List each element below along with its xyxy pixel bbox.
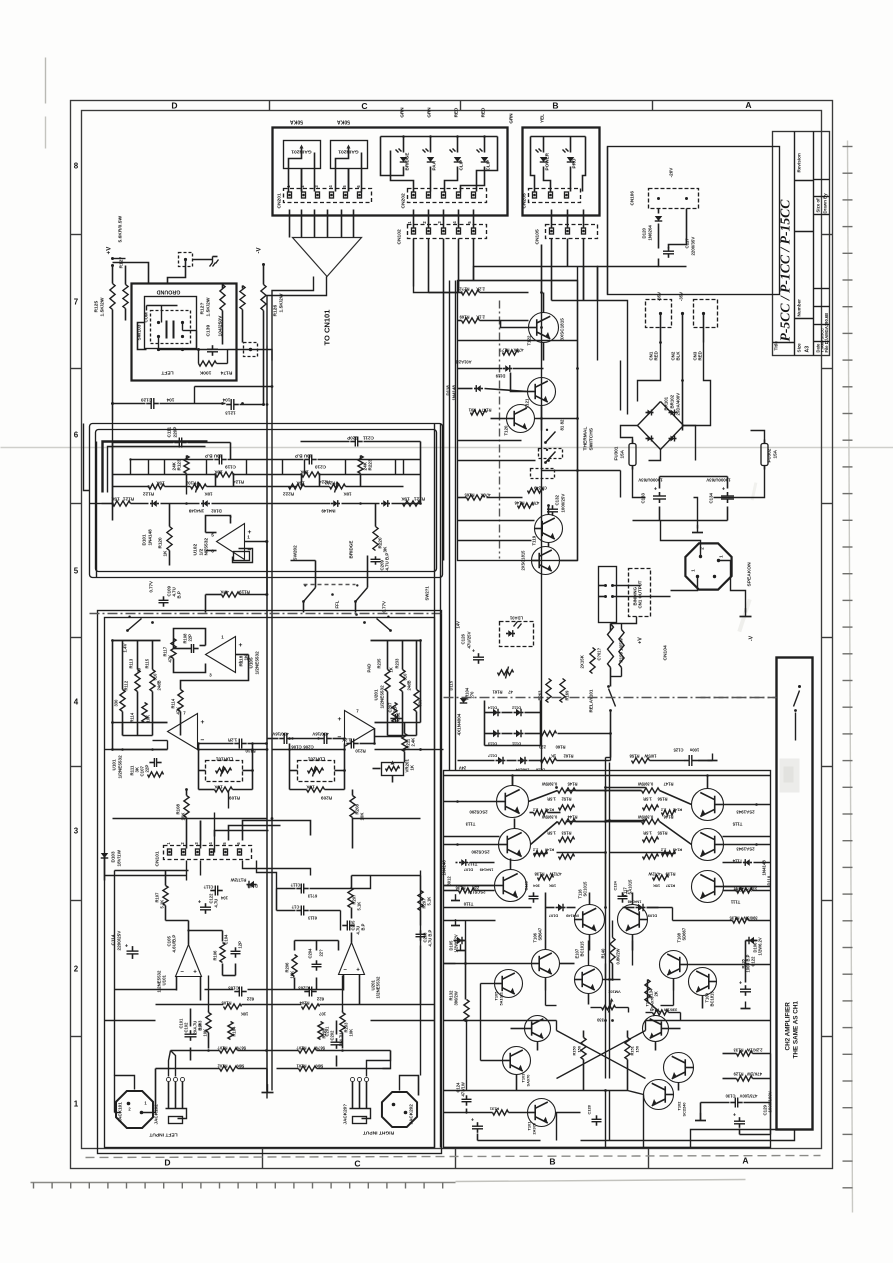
resistor R148 CR249	[528, 488, 544, 493]
svg-text:R174: R174	[220, 370, 232, 376]
svg-text:U102: U102	[193, 544, 199, 556]
svg-text:R159 10/5W: R159 10/5W	[619, 637, 624, 662]
op-amp U101 input stage left	[168, 714, 198, 750]
svg-text:330: 330	[596, 1018, 604, 1023]
svg-text:10K: 10K	[290, 971, 295, 979]
svg-text:10K: 10K	[146, 715, 151, 723]
svg-text:Size of: Size of	[816, 198, 821, 213]
transistor T112 2SC5200	[499, 829, 531, 861]
svg-text:2XSC1815: 2XSC1815	[521, 550, 526, 571]
svg-text:R126: R126	[273, 305, 279, 317]
svg-text:R113: R113	[129, 658, 134, 668]
svg-text:1N4148: 1N4148	[627, 900, 641, 905]
capacitor C210 10U B.P	[308, 455, 310, 465]
svg-text:CH2 AMPLIFIER: CH2 AMPLIFIER	[785, 1002, 792, 1051]
LED PRO indicator	[567, 157, 575, 162]
svg-text:CLIP: CLIP	[459, 160, 464, 171]
wires preamp mid	[186, 790, 188, 796]
svg-text:R112: R112	[124, 680, 129, 690]
svg-text:C102: C102	[184, 1022, 189, 1033]
jack JACK101 octagon	[116, 1091, 153, 1128]
ground big caps	[694, 498, 698, 529]
capacitor C128 bottom middle	[592, 1118, 602, 1120]
svg-text:R162: R162	[563, 754, 574, 759]
transistor T108 SD667	[660, 951, 688, 979]
svg-text:−: −	[180, 969, 184, 976]
svg-text:4.7U B.P: 4.7U B.P	[428, 930, 433, 947]
wire bottom rail output	[444, 1147, 771, 1149]
svg-text:R12?: R12?	[200, 303, 206, 315]
diode D119	[505, 365, 510, 372]
wires under CN101 extra	[257, 861, 277, 889]
svg-text:R135: R135	[729, 916, 740, 921]
svg-text:R169: R169	[565, 690, 570, 701]
right edge ruler ticks	[843, 146, 853, 148]
svg-text:47/2W: 47/2W	[549, 872, 561, 877]
svg-text:C128: C128	[587, 1104, 592, 1114]
svg-text:2X15K: 2X15K	[580, 654, 585, 668]
svg-text:-V: -V	[749, 635, 755, 641]
svg-text:SW202: SW202	[293, 545, 298, 561]
svg-text:2K: 2K	[654, 991, 659, 996]
svg-text:C?01?: C?01?	[597, 647, 602, 660]
svg-text:D115: D115	[449, 680, 454, 690]
resistor R167 2.2K	[462, 290, 480, 295]
transistor T104 SA970	[643, 1016, 669, 1042]
transistor T115 2SA1943	[692, 789, 724, 821]
polarized capacitor bottom left	[472, 1125, 483, 1127]
svg-text:2.2: 2.2	[660, 808, 666, 813]
transistor T102 SC2240 pair	[664, 1053, 694, 1083]
svg-text:150: 150	[635, 1046, 640, 1053]
emitter resistors left bank	[558, 788, 576, 793]
title block divider lines	[794, 132, 796, 356]
svg-text:Title: Title	[774, 341, 779, 351]
svg-text:15A: 15A	[620, 449, 625, 458]
polarized capacitor C122 4.7U	[200, 906, 211, 908]
svg-text:+V: +V	[638, 637, 644, 644]
transistor small left	[495, 970, 523, 998]
svg-text:R133: R133	[733, 1048, 744, 1053]
svg-text:D107: D107	[464, 868, 473, 873]
power section extra wires	[458, 340, 578, 342]
svg-text:1N6204: 1N6204	[648, 225, 653, 241]
svg-text:2200/35V: 2200/35V	[691, 237, 696, 256]
dashed lead into CH2 box	[701, 697, 777, 699]
transistor T121	[528, 378, 556, 406]
svg-text:1000/25V: 1000/25V	[561, 494, 566, 513]
svg-text:CR249: CR249	[533, 486, 547, 491]
wires LEDs CN205	[543, 137, 545, 153]
wire main rails across middle	[541, 245, 543, 771]
svg-text:BC1015: BC1015	[580, 941, 585, 957]
svg-text:4.7U B.P: 4.7U B.P	[385, 553, 390, 571]
resistor R107 5.1K	[163, 886, 168, 906]
svg-text:6?13: 6?13	[307, 894, 317, 899]
wires output bank right	[660, 791, 692, 805]
wire tone box to preamp crossing	[266, 542, 268, 595]
resistor R125 1.5K/2W pair on +V	[110, 284, 115, 310]
connector CN101 pin strip	[164, 846, 252, 860]
input switch left channel	[126, 629, 129, 632]
svg-text:B.P: B.P	[361, 923, 366, 930]
resistor R203 10K vertical	[340, 1013, 345, 1033]
svg-text:Size: Size	[797, 343, 802, 353]
svg-text:50KA: 50KA	[290, 119, 303, 125]
left zone dividers	[71, 234, 82, 236]
switch SW202 left	[302, 600, 305, 603]
resistor R158 10/5W with C125 100n	[632, 758, 650, 763]
wires big caps	[659, 477, 661, 489]
zone dividers top band	[269, 101, 271, 111]
svg-text:PAA: PAA	[432, 160, 437, 170]
wire from ground box top to TP	[168, 267, 186, 284]
svg-text:LDA01: LDA01	[509, 616, 523, 621]
polarized capacitor bottom right	[734, 1120, 745, 1122]
svg-text:C132: C132	[555, 494, 560, 505]
svg-text:C206: C206	[303, 745, 314, 750]
resistor R169 2.2K	[462, 318, 480, 323]
svg-text:47/2W: 47/2W	[648, 872, 660, 877]
wires bridge to fuses	[621, 426, 638, 444]
capacitor C133 10000U/63V	[653, 495, 666, 497]
inner drawing frame	[82, 111, 822, 1149]
svg-text:81 82: 81 82	[560, 419, 565, 431]
wire relay rail to output	[606, 757, 611, 759]
svg-text:R157: R157	[666, 884, 675, 889]
svg-text:104: 104	[166, 398, 174, 403]
svg-text:SD667: SD667	[682, 927, 687, 940]
svg-text:D: D	[171, 101, 177, 111]
svg-text:+: +	[198, 900, 201, 906]
svg-text:0.77V: 0.77V	[149, 581, 154, 593]
bottom middle wires	[556, 1113, 558, 1141]
svg-text:473/1W: 473/1W	[461, 1082, 466, 1096]
resistor R165 470K	[467, 495, 485, 500]
wires op-amp U102	[206, 532, 217, 534]
connector CN205 pin strip	[529, 189, 581, 203]
svg-text:1K: 1K	[389, 667, 394, 672]
ground symbol upper	[193, 259, 213, 261]
resistor R164 901	[471, 410, 487, 415]
svg-text:+: +	[239, 642, 243, 649]
svg-text:100n: 100n	[689, 748, 699, 753]
relay RELAY101 coil	[608, 624, 614, 668]
LED401 dashed box	[500, 622, 534, 647]
capacitor C111 220p	[178, 438, 180, 448]
svg-text:10K: 10K	[306, 785, 315, 790]
preamp bottom rails	[155, 1069, 157, 1113]
resistor ladder left channel R112 R113 R114 R115	[135, 670, 140, 692]
capacitor C110 1.2R network	[238, 739, 240, 749]
svg-text:220P: 220P	[347, 436, 358, 441]
binding post dashed box CN1 OUTPUT	[629, 569, 651, 617]
svg-text:R206: R206	[285, 962, 290, 973]
svg-text:7: 7	[74, 298, 79, 307]
svg-text:NE5532: NE5532	[204, 538, 210, 556]
svg-text:10K: 10K	[214, 785, 223, 790]
svg-text:47K: 47K	[168, 655, 173, 663]
trimmer VR102 330	[602, 1005, 616, 1009]
svg-text:+: +	[193, 969, 197, 976]
svg-text:2.1K: 2.1K	[476, 315, 485, 320]
svg-text:0.8K/2W: 0.8K/2W	[616, 948, 621, 964]
svg-text:R144: R144	[567, 815, 578, 820]
capacitor C123	[529, 895, 539, 897]
svg-text:BRIDGE: BRIDGE	[349, 541, 354, 559]
svg-text:1.5R: 1.5R	[547, 831, 556, 836]
transistor T101	[528, 1099, 556, 1127]
svg-text:R2?2: R2?2	[459, 287, 470, 292]
wire big loop power box	[607, 147, 609, 295]
fuse FU302 15A	[761, 444, 768, 466]
svg-text:-V: -V	[256, 247, 263, 254]
svg-text:5.1K: 5.1K	[427, 897, 432, 906]
resistor R207 5.1K	[348, 888, 353, 908]
svg-text:D103: D103	[111, 851, 116, 862]
svg-text:PRO: PRO	[572, 158, 577, 168]
svg-text:1K: 1K	[551, 754, 556, 759]
svg-text:RED: RED	[454, 107, 459, 117]
svg-text:RED: RED	[698, 351, 703, 360]
svg-text:3XSC1815: 3XSC1815	[560, 318, 565, 341]
svg-text:IN4149: IN4149	[565, 914, 578, 919]
transistor T120	[507, 405, 535, 433]
svg-text:+: +	[472, 649, 475, 655]
svg-text:10K: 10K	[549, 884, 556, 889]
junction dots rail 749	[121, 748, 124, 751]
svg-text:10K: 10K	[349, 1029, 354, 1037]
resistor R163 R169 vertical pair	[590, 648, 595, 674]
wire bus from triangle down-left	[267, 277, 327, 346]
svg-text:Number: Number	[797, 299, 802, 317]
resistor R223 24K right	[358, 456, 363, 474]
fuse FU301 15A	[629, 444, 636, 466]
svg-text:14V: 14V	[456, 621, 461, 629]
svg-text:R146: R146	[514, 501, 525, 506]
svg-text:0.39/5W: 0.39/5W	[638, 782, 653, 787]
svg-text:3012: 3012	[447, 876, 452, 886]
svg-text:RELAY101: RELAY101	[589, 689, 594, 712]
resistor R149 330/1W	[653, 1010, 669, 1015]
tone box left entry wires	[90, 503, 102, 505]
capacitor C108 22P	[190, 644, 192, 653]
svg-text:C210: C210	[315, 465, 326, 470]
ground near speaker	[740, 616, 752, 618]
svg-text:R158: R158	[629, 754, 640, 759]
diode D106 1/2W6.2V right	[749, 937, 754, 945]
capacitor C120 104 row	[150, 398, 152, 409]
resistor R133 2.2K/1W	[737, 1051, 753, 1056]
wires bottom network	[156, 1004, 224, 1006]
svg-text:C: C	[361, 101, 367, 111]
svg-text:10K: 10K	[343, 492, 352, 497]
wires protection cluster	[458, 292, 462, 294]
wire CN105 to power	[552, 301, 628, 361]
svg-text:330: 330	[114, 699, 119, 707]
connector CN105 pin strip	[546, 225, 598, 239]
svg-text:2A970: 2A970	[532, 1123, 537, 1134]
resistor ladder right channel R232 R233 R234 R235	[385, 670, 390, 692]
tone section outer box	[90, 424, 443, 578]
svg-text:+: +	[471, 1118, 474, 1124]
svg-text:C106: C106	[291, 745, 302, 750]
svg-text:C202: C202	[330, 1030, 335, 1041]
svg-text:1.5R: 1.5R	[643, 797, 652, 802]
resistor R121 15K far left	[113, 501, 131, 506]
right paper edge	[848, 141, 853, 1213]
diode D104	[249, 881, 254, 889]
svg-text:BRIDGE: BRIDGE	[405, 153, 410, 171]
LDR101 dashed box	[206, 761, 243, 782]
capacitor row 622 right	[308, 987, 310, 997]
wires switch row	[315, 561, 317, 588]
wires CN106 loop	[658, 209, 660, 214]
resistor R117 47K vertical	[171, 639, 176, 659]
svg-text:Revision: Revision	[797, 153, 802, 172]
svg-text:C123: C123	[524, 880, 529, 890]
output stage enclosure	[444, 771, 771, 1148]
svg-text:+: +	[338, 716, 342, 723]
diode D102 1N4149	[203, 500, 208, 507]
wire right test point down	[251, 350, 273, 361]
svg-text:R01: R01	[468, 408, 476, 413]
resistor R108 10K vertical	[184, 796, 189, 818]
resistor R210 1.2K	[350, 739, 352, 749]
svg-text:622: 622	[246, 997, 254, 1002]
junction dots extra	[540, 417, 543, 420]
switch SW103 contacts	[157, 321, 160, 324]
preamp long rails	[113, 640, 161, 642]
resistor 10K below LDR101	[215, 787, 233, 792]
resistor R146 47K with cap	[518, 503, 534, 508]
capacitor C207 22P	[394, 714, 396, 723]
long vertical buses right half	[449, 281, 451, 771]
wire bus CN102 down to power section	[413, 239, 415, 287]
svg-text:1.5R: 1.5R	[643, 831, 652, 836]
svg-text:C126: C126	[461, 633, 466, 644]
svg-text:CLIP: CLIP	[486, 160, 491, 171]
svg-text:1K: 1K	[410, 764, 415, 770]
wires LEDs to top rail	[403, 137, 405, 153]
ground bottom right	[695, 1120, 706, 1122]
svg-text:SC2240: SC2240	[682, 1102, 687, 1116]
svg-text:430/16V: 430/16V	[272, 732, 288, 737]
svg-text:FU302: FU302	[767, 448, 772, 462]
capacitor C124	[618, 895, 628, 897]
wire output mid rails	[606, 787, 646, 789]
svg-text:CN205: CN205	[522, 193, 528, 208]
svg-text:5.1K: 5.1K	[160, 900, 165, 909]
svg-text:R125: R125	[94, 301, 100, 313]
svg-text:+V: +V	[106, 246, 113, 255]
svg-text:R143: R143	[672, 848, 682, 853]
svg-text:1.5R: 1.5R	[547, 797, 556, 802]
svg-text:CN104: CN104	[663, 645, 669, 660]
trimmer VR102 10K left	[191, 484, 207, 489]
svg-text:1/2NE5532: 1/2NE5532	[380, 685, 385, 709]
svg-text:5.1K: 5.1K	[357, 902, 362, 911]
capacitor C117 2200/35V	[663, 250, 674, 252]
x-cross wires output	[557, 1031, 646, 1079]
bridge rectifier BR101 BR102 25A/400V	[638, 402, 684, 450]
svg-text:D110: D110	[767, 875, 772, 885]
svg-text:CN106: CN106	[630, 191, 635, 206]
svg-text:SA1015: SA1015	[628, 879, 633, 895]
svg-text:SC1015: SC1015	[583, 881, 588, 897]
svg-text:R122: R122	[143, 492, 154, 497]
svg-text:B: B	[552, 101, 558, 111]
transistor T118	[532, 547, 560, 575]
diode D115	[460, 698, 468, 703]
scan smudge in CH2 box	[780, 759, 800, 793]
transistor T117 SA1015	[618, 905, 648, 935]
resistor R202 5.1K right column	[418, 891, 423, 911]
svg-text:RIGHT INPUT: RIGHT INPUT	[363, 1130, 394, 1136]
svg-text:470K: 470K	[481, 493, 491, 498]
svg-text:BLK: BLK	[676, 351, 681, 361]
diode D107 IN4149	[558, 904, 563, 912]
svg-text:15K: 15K	[296, 481, 305, 486]
wires into CN101	[186, 841, 188, 849]
svg-text:15K: 15K	[156, 481, 165, 486]
wires driver cluster	[444, 920, 496, 922]
svg-text:104: 104	[222, 398, 230, 403]
svg-text:24K: 24K	[172, 461, 177, 470]
svg-text:622: 622	[316, 997, 324, 1002]
svg-text:1/2W6.2V: 1/2W6.2V	[758, 937, 763, 955]
svg-text:1213: 1213	[225, 411, 236, 416]
svg-text:1.5K/2W: 1.5K/2W	[206, 297, 212, 316]
svg-text:2SA1943: 2SA1943	[736, 810, 755, 815]
wire preamp output to power amp	[435, 749, 444, 751]
svg-text:104: 104	[220, 896, 228, 901]
wires U105	[200, 645, 206, 647]
svg-text:R147: R147	[663, 782, 674, 787]
svg-text:CN1 OUTPUT: CN1 OUTPUT	[638, 580, 643, 608]
svg-text:D117: D117	[488, 754, 497, 759]
wires pot blocks to CN201 pins	[288, 169, 290, 192]
capacitor C119 10U B.P	[218, 455, 220, 465]
svg-text:15K: 15K	[401, 497, 410, 502]
svg-text:C139: C139	[206, 325, 212, 337]
svg-text:10K: 10K	[204, 492, 213, 497]
svg-text:THERMAL: THERMAL	[583, 427, 589, 451]
feedback loop box U102	[233, 549, 253, 563]
svg-text:R235: R235	[377, 658, 382, 669]
svg-text:-20V: -20V	[669, 167, 674, 178]
capacitor C132 1000/25V	[547, 508, 558, 510]
resistor R174 100K	[199, 361, 217, 366]
diode D1xx left	[476, 385, 481, 392]
capacitor C109 4.7U B.P	[159, 599, 169, 601]
wires ladder left	[137, 641, 139, 670]
resistor R124 10K left	[216, 472, 234, 477]
svg-text:YEL: YEL	[540, 114, 545, 123]
trimmer VR201 1K	[382, 763, 404, 776]
svg-text:330/1W: 330/1W	[663, 1008, 677, 1013]
resistor R137 22K right with diode	[745, 859, 750, 866]
svg-text:LDR101: LDR101	[215, 757, 233, 762]
svg-text:FFL: FFL	[335, 600, 340, 608]
svg-text:D120: D120	[642, 227, 647, 238]
svg-text:24dB: 24dB	[157, 680, 162, 690]
test point dashed square right	[244, 343, 258, 357]
svg-text:+: +	[654, 487, 657, 493]
svg-text:Drawn By: Drawn By	[823, 193, 828, 214]
svg-text:U101: U101	[162, 974, 167, 985]
capacitor C139 104/250V	[207, 348, 218, 350]
